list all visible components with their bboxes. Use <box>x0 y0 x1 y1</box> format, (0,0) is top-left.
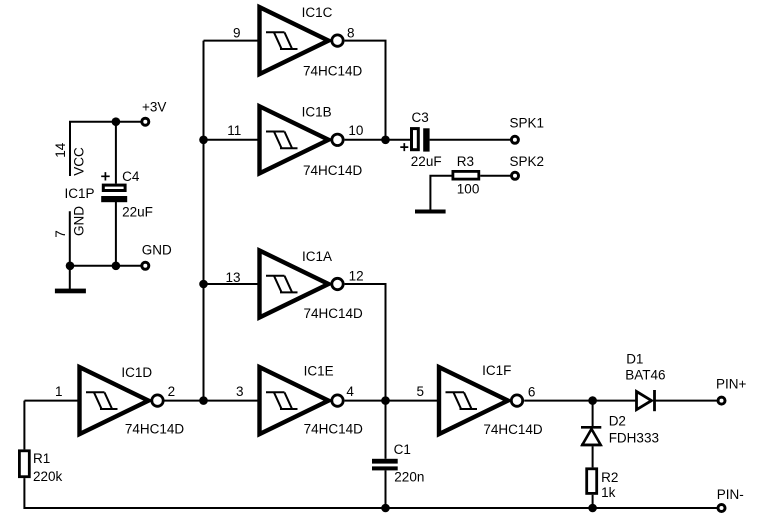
svg-text:C1: C1 <box>394 442 411 457</box>
svg-text:7: 7 <box>53 230 68 238</box>
svg-text:74HC14D: 74HC14D <box>304 306 364 321</box>
svg-text:IC1P: IC1P <box>65 186 95 201</box>
svg-text:1: 1 <box>55 384 63 399</box>
svg-text:C4: C4 <box>122 169 140 184</box>
svg-text:10: 10 <box>348 123 363 138</box>
svg-text:SPK2: SPK2 <box>510 154 545 169</box>
svg-text:6: 6 <box>528 385 536 400</box>
svg-text:IC1A: IC1A <box>302 249 332 264</box>
svg-text:R1: R1 <box>33 451 50 466</box>
svg-text:13: 13 <box>226 270 241 285</box>
svg-text:12: 12 <box>349 269 364 284</box>
svg-text:IC1B: IC1B <box>302 105 332 120</box>
svg-text:8: 8 <box>347 25 355 40</box>
svg-text:22uF: 22uF <box>122 205 153 220</box>
svg-text:D2: D2 <box>609 414 626 429</box>
svg-text:74HC14D: 74HC14D <box>303 64 363 79</box>
svg-text:FDH333: FDH333 <box>609 430 659 445</box>
svg-text:74HC14D: 74HC14D <box>303 163 363 178</box>
svg-text:220n: 220n <box>394 470 424 485</box>
svg-text:VCC: VCC <box>72 147 87 176</box>
svg-text:74HC14D: 74HC14D <box>125 422 185 437</box>
svg-text:IC1F: IC1F <box>482 363 511 378</box>
svg-text:5: 5 <box>417 384 425 399</box>
svg-text:GND: GND <box>71 206 86 236</box>
svg-text:R3: R3 <box>457 154 474 169</box>
svg-text:22uF: 22uF <box>411 154 442 169</box>
svg-text:SPK1: SPK1 <box>510 115 545 130</box>
svg-text:D1: D1 <box>626 352 643 367</box>
svg-text:74HC14D: 74HC14D <box>304 422 364 437</box>
svg-text:1k: 1k <box>601 485 616 500</box>
svg-text:IC1C: IC1C <box>302 5 333 20</box>
svg-text:14: 14 <box>53 142 68 158</box>
svg-text:IC1E: IC1E <box>304 363 334 378</box>
svg-text:PIN-: PIN- <box>717 487 744 502</box>
svg-text:9: 9 <box>233 25 241 40</box>
svg-text:74HC14D: 74HC14D <box>483 422 543 437</box>
svg-text:BAT46: BAT46 <box>625 367 665 382</box>
svg-text:3: 3 <box>236 384 244 399</box>
svg-text:GND: GND <box>142 243 172 258</box>
svg-text:220k: 220k <box>33 469 63 484</box>
svg-text:+3V: +3V <box>142 100 166 115</box>
svg-text:11: 11 <box>227 123 241 138</box>
svg-text:IC1D: IC1D <box>121 365 152 380</box>
svg-text:R2: R2 <box>601 470 618 485</box>
svg-text:PIN+: PIN+ <box>716 377 747 392</box>
svg-text:C3: C3 <box>412 110 429 125</box>
svg-text:2: 2 <box>168 384 176 399</box>
svg-text:4: 4 <box>346 384 354 399</box>
svg-text:100: 100 <box>457 181 480 196</box>
